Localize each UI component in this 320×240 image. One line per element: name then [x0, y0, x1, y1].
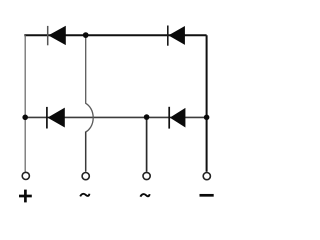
- junction dot node 1 (top bus / hop wire): [83, 32, 89, 38]
- diode D1 (top-left): [48, 26, 66, 45]
- diode D4 (middle-right): [169, 107, 185, 129]
- diode D2 (top-right): [168, 26, 185, 46]
- label - (terminal 4): [200, 194, 214, 197]
- junction dot node 3 (middle bus / stub): [144, 114, 150, 120]
- wire middle bus: [25, 116, 206, 118]
- terminal 1 circle (+): [22, 172, 29, 179]
- terminal 3 circle (~): [143, 172, 150, 179]
- wire right vertical: [206, 35, 208, 172]
- wire node-1 vertical with hop over middle bus: [86, 36, 94, 132]
- wire stub to terminal 2: [85, 132, 87, 172]
- label ~ (terminal 3): [140, 194, 149, 197]
- label ~ (terminal 2): [80, 194, 89, 197]
- wire left vertical: [24, 35, 26, 171]
- label + (terminal 1): [19, 190, 32, 203]
- wire top bus: [24, 34, 206, 36]
- terminal 2 circle (~): [82, 173, 89, 180]
- terminal 4 circle (-): [203, 173, 210, 180]
- diode D3 (middle-left): [47, 107, 65, 129]
- junction dot right (middle bus / right vertical): [204, 115, 210, 121]
- junction dot left (middle bus / left vertical): [22, 115, 28, 121]
- wire stub to terminal 3: [146, 117, 148, 171]
